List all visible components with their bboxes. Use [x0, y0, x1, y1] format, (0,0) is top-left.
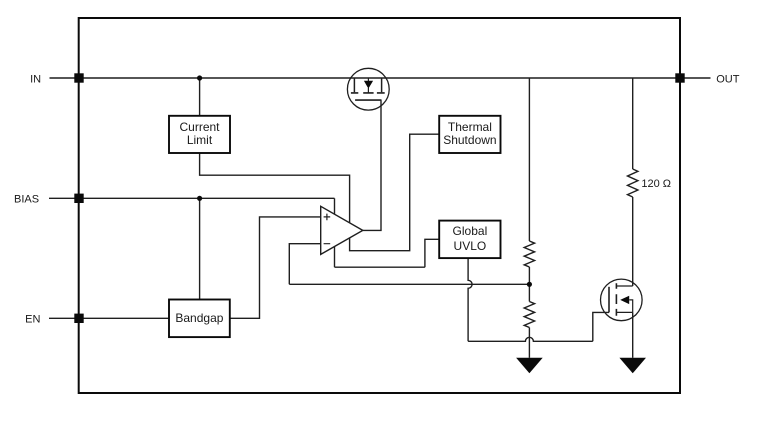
wire UVLO bottom with hop [468, 258, 472, 341]
ground under divider [516, 358, 543, 374]
svg-text:Shutdown: Shutdown [443, 133, 496, 147]
box Global UVLO [439, 221, 500, 259]
wire UVLO input riser [425, 239, 439, 267]
wire Current Limit to Thermal Shutdown [200, 134, 440, 251]
wire EN rail [79, 317, 169, 319]
wire NMOS gate riser [593, 312, 609, 341]
svg-text:IN: IN [30, 73, 41, 85]
op-amp error amplifier [321, 206, 363, 254]
svg-text:Thermal: Thermal [448, 120, 492, 134]
wire 120 ohm top [632, 78, 634, 169]
wire op-amp output to pass gate [363, 100, 381, 230]
wire feedback to op-amp - [289, 244, 320, 285]
wire BIAS to UVLO horizontal [335, 266, 425, 268]
wire divider middle [528, 267, 530, 302]
wire BIAS tap to Bandgap [199, 198, 201, 299]
pass transistor PMOS [347, 68, 389, 110]
wire BIAS vertical through amp [334, 198, 336, 267]
transistor NMOS (pull-down) [601, 279, 643, 321]
junction dot BIAS/Bandgap [197, 196, 202, 201]
svg-text:Bandgap: Bandgap [175, 311, 223, 325]
svg-text:120 Ω: 120 Ω [641, 178, 671, 190]
wire EN lead [49, 317, 75, 319]
wire divider top [528, 78, 530, 241]
wire 120 ohm to NMOS drain [632, 197, 634, 286]
wire Bandgap output to op-amp + [230, 217, 321, 318]
box Current Limit [169, 116, 230, 153]
box Thermal Shutdown [439, 116, 500, 153]
resistor divider lower [524, 302, 534, 328]
wire IN tap to Current Limit [199, 78, 201, 116]
outer block boundary [79, 18, 680, 393]
wire NMOS source to ground [632, 312, 634, 357]
junction dot IN/Current Limit [197, 75, 202, 80]
svg-text:OUT: OUT [716, 73, 740, 85]
wire BIAS lead [49, 197, 75, 199]
wire BIAS rail [79, 197, 335, 199]
junction dot feedback/divider [527, 282, 532, 287]
wire OUT lead [684, 77, 711, 79]
wire IN lead [50, 77, 75, 79]
wire divider bottom [528, 328, 530, 358]
wire NMOS gate horizontal with hop [468, 337, 593, 341]
pin OUT [675, 73, 684, 82]
ground under NMOS [619, 358, 646, 374]
wire feedback horizontal [289, 283, 529, 285]
svg-text:BIAS: BIAS [14, 194, 39, 206]
resistor 120 ohm [628, 169, 638, 197]
svg-text:Current: Current [179, 120, 220, 134]
resistor divider upper [524, 241, 534, 267]
pin BIAS [74, 194, 83, 203]
svg-text:UVLO: UVLO [454, 239, 487, 253]
svg-text:Limit: Limit [187, 133, 213, 147]
pin EN [74, 314, 83, 323]
pin IN [74, 73, 83, 82]
box Bandgap [169, 300, 230, 338]
svg-text:Global: Global [453, 224, 488, 238]
svg-text:EN: EN [25, 314, 40, 326]
wire IN rail (top) [79, 77, 680, 79]
